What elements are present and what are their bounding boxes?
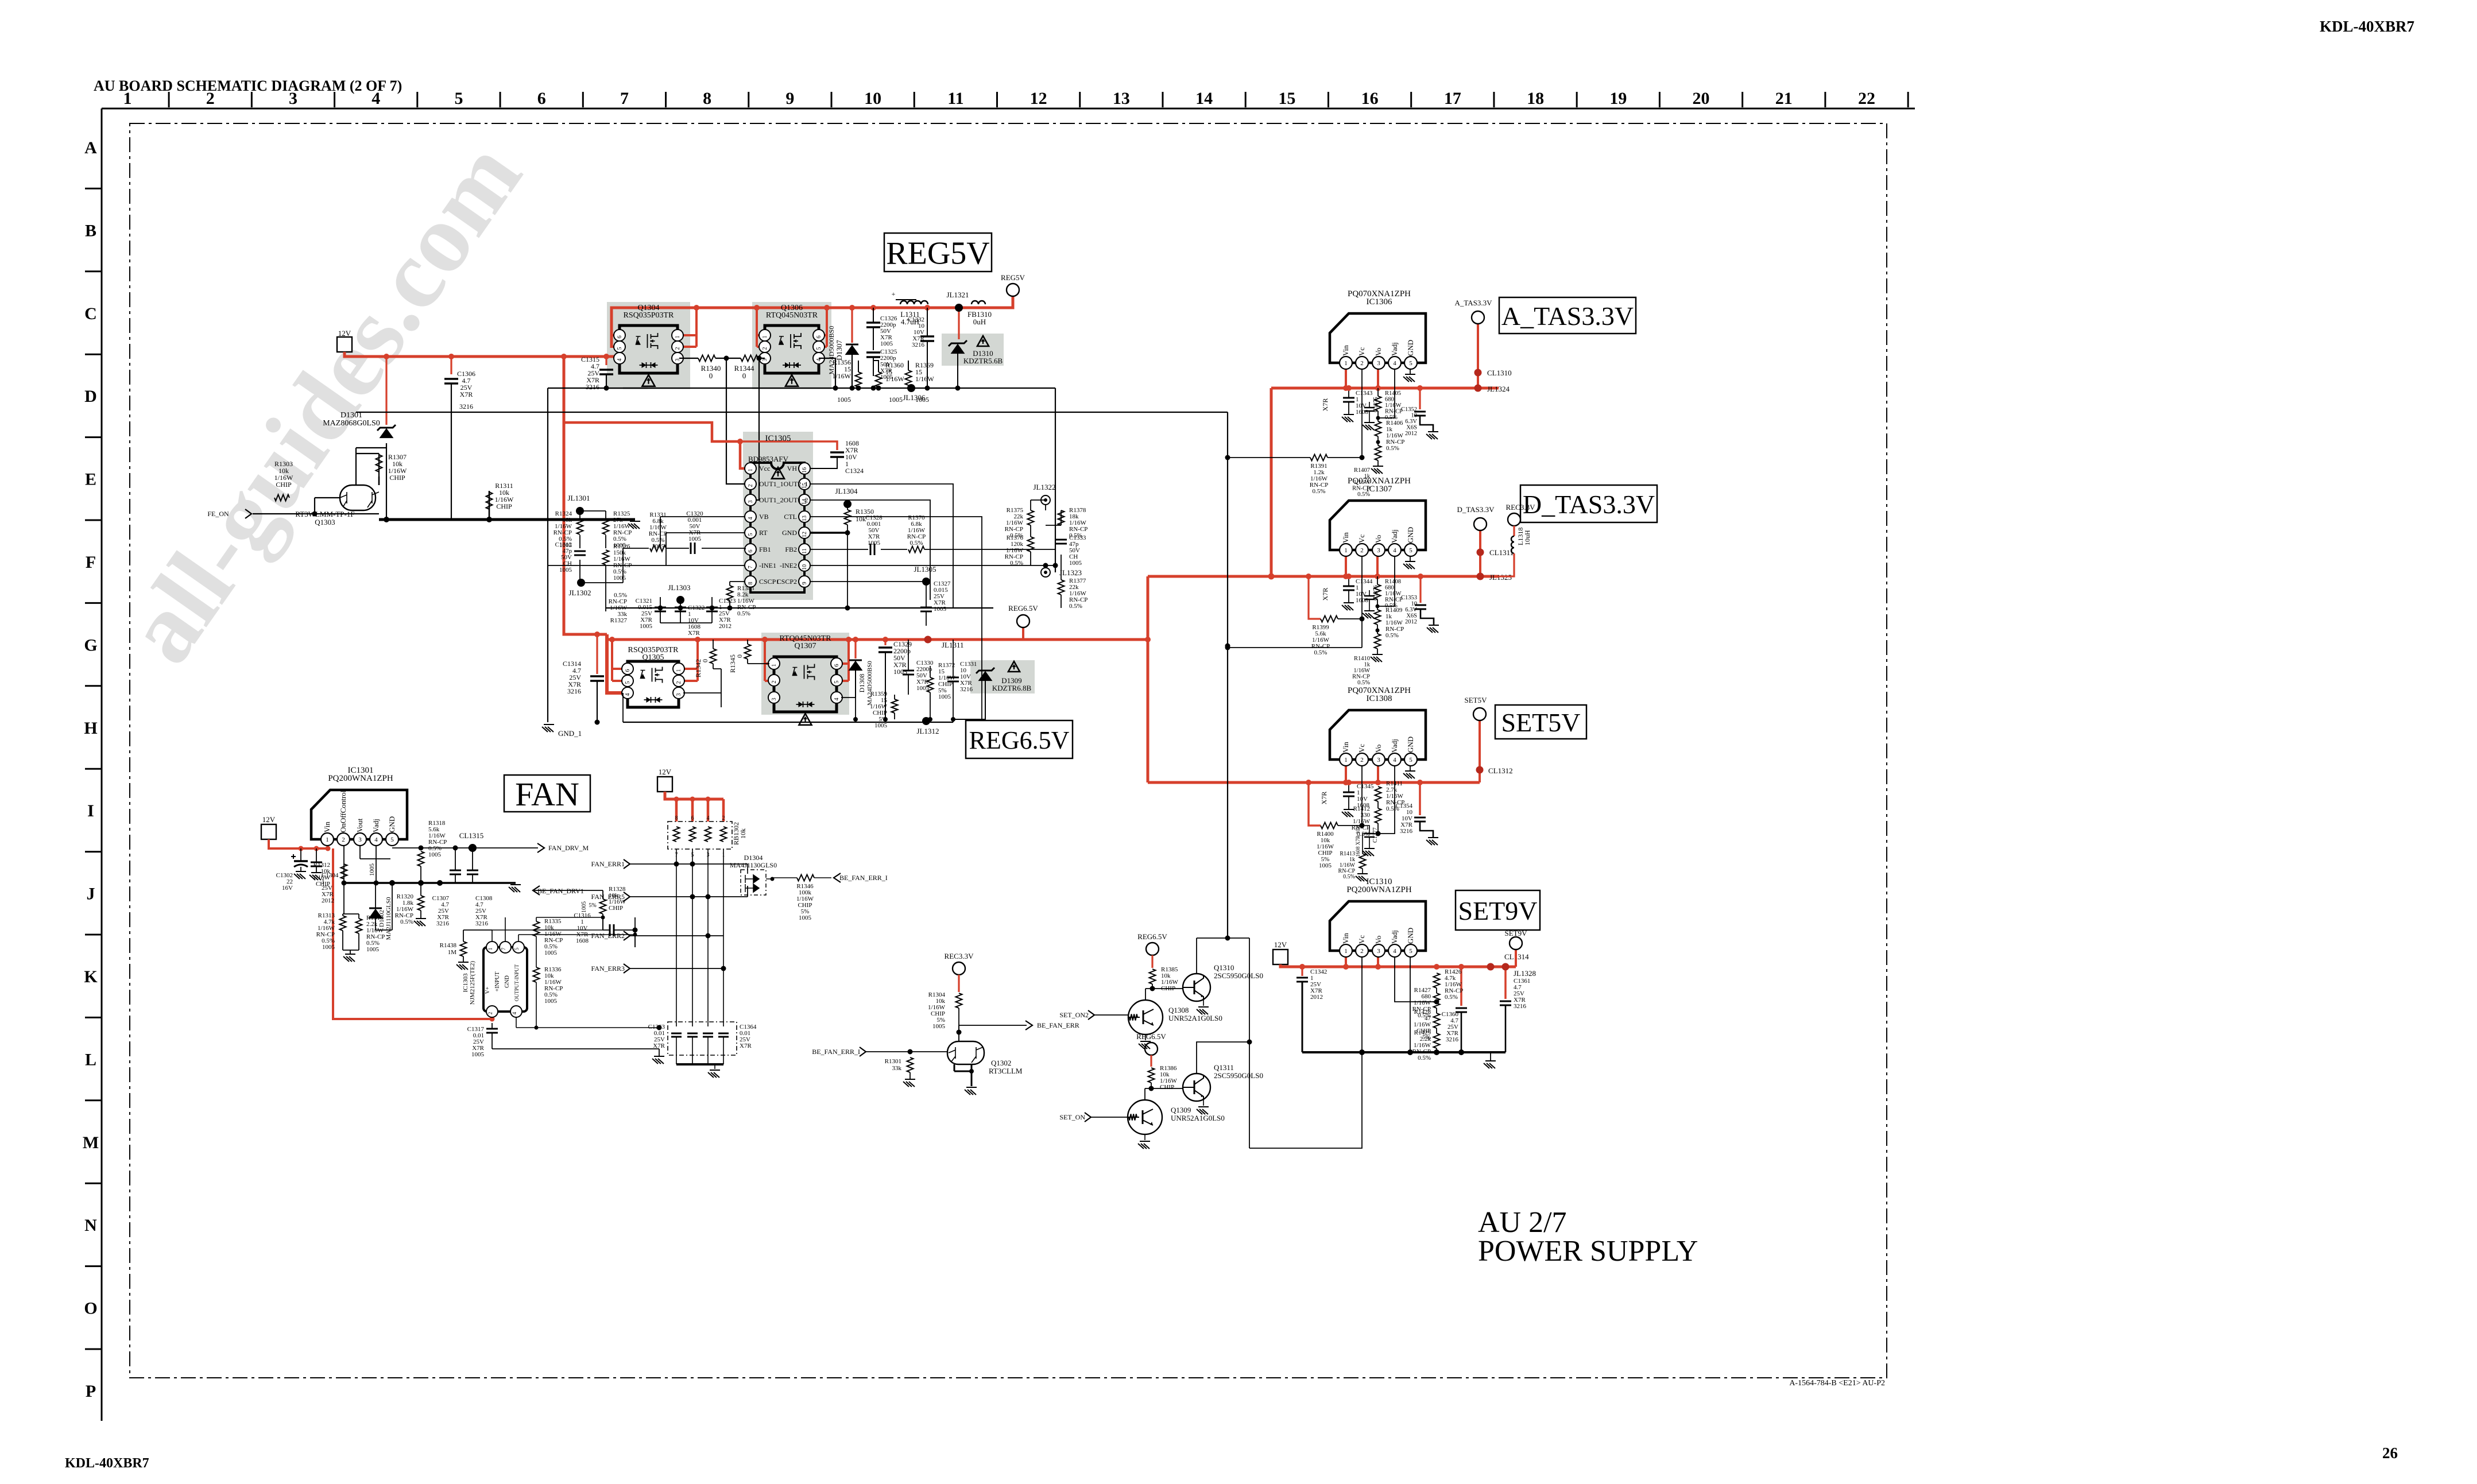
wire SET5V riser <box>1479 721 1481 782</box>
svg-text:PQ070XNA1ZPH: PQ070XNA1ZPH <box>1348 686 1411 695</box>
svg-text:PQ070XNA1ZPH: PQ070XNA1ZPH <box>1348 476 1411 486</box>
ground (Q1303) <box>628 521 640 529</box>
input SET_ON2 <box>1088 1010 1094 1020</box>
wire vertical x954 <box>547 388 548 722</box>
svg-text:1: 1 <box>771 664 777 667</box>
IC U1310 (PQ200WNA1ZPH) <box>1330 901 1426 951</box>
svg-text:5: 5 <box>834 681 840 684</box>
svg-text:1: 1 <box>676 669 682 672</box>
capacitor C1306 <box>444 379 458 383</box>
svg-text:2: 2 <box>748 485 754 487</box>
svg-text:OUTPUT-INPUT: OUTPUT-INPUT <box>514 964 520 1001</box>
jumper JL1312 <box>922 717 930 725</box>
grid rulers <box>102 108 1915 110</box>
svg-text:8: 8 <box>675 815 678 822</box>
ground fan mid <box>509 885 521 892</box>
svg-text:4: 4 <box>512 1012 517 1014</box>
svg-text:1/16W: 1/16W <box>832 372 851 380</box>
svg-text:AU BOARD SCHEMATIC DIAGRAM (2: AU BOARD SCHEMATIC DIAGRAM (2 OF 7) <box>94 78 402 94</box>
svg-text:1005: 1005 <box>889 396 903 404</box>
jumper JL1328 <box>1502 963 1510 971</box>
wire IC1301 pin2 drop <box>343 845 345 914</box>
svg-text:X7R: X7R <box>653 1043 665 1049</box>
block label D_TAS3.3V <box>1520 485 1657 522</box>
wire Q1311 collector up <box>1197 1042 1249 1074</box>
capacitor C1326 <box>866 323 880 327</box>
svg-text:0.5%: 0.5% <box>1313 488 1326 495</box>
svg-text:2: 2 <box>342 836 345 843</box>
wire OUT1 drop A <box>726 358 745 484</box>
svg-text:16: 16 <box>802 467 808 473</box>
wire thick gnd run <box>379 518 635 521</box>
svg-text:FAN: FAN <box>515 776 579 813</box>
wire Q1303 collector net <box>379 476 489 520</box>
svg-text:D: D <box>84 387 97 406</box>
resistor R1360 <box>876 372 882 387</box>
svg-text:X7R: X7R <box>740 1043 752 1049</box>
capacitor C1377 <box>1364 834 1375 837</box>
wire Q1304 left pin drops <box>611 335 623 347</box>
svg-text:3: 3 <box>1377 757 1380 764</box>
svg-text:3: 3 <box>676 693 682 696</box>
svg-text:D1307: D1307 <box>835 340 843 361</box>
svg-text:6: 6 <box>617 336 623 339</box>
svg-text:REG6.5V: REG6.5V <box>969 726 1070 754</box>
diode D1309 (zener, gray box) <box>976 668 994 673</box>
resistor R1385 <box>1150 969 1156 984</box>
svg-text:6: 6 <box>748 550 754 553</box>
capacitor C1329 <box>878 648 892 652</box>
svg-text:A: A <box>84 138 97 157</box>
gray box D1310 <box>942 334 1004 366</box>
svg-text:1: 1 <box>487 948 493 951</box>
resistor R1342 <box>710 649 717 664</box>
wire fan err gnd bus <box>676 1063 723 1065</box>
resistor R1346 <box>797 875 814 881</box>
wire D1301 feed <box>385 357 387 425</box>
svg-text:IC1307: IC1307 <box>1367 485 1393 494</box>
svg-text:Q1303: Q1303 <box>315 518 335 526</box>
svg-text:M: M <box>83 1133 99 1152</box>
wire REG6.5V gnd bus <box>623 722 953 723</box>
svg-text:5: 5 <box>748 533 754 536</box>
wire IC1305 pin rails <box>548 517 745 582</box>
wire SET_ON to Q1309 <box>1091 1117 1129 1118</box>
capacitor C1325 <box>866 352 880 357</box>
wire REC3.3V drop <box>1513 526 1515 536</box>
svg-text:REC3.3V: REC3.3V <box>945 952 974 960</box>
capacitor C1317 <box>486 1029 498 1033</box>
svg-text:10k: 10k <box>856 515 866 523</box>
svg-text:12: 12 <box>802 532 808 537</box>
svg-text:RT3CLLM: RT3CLLM <box>989 1067 1023 1075</box>
svg-text:Vadj: Vadj <box>1390 739 1399 753</box>
svg-text:1005: 1005 <box>428 851 442 858</box>
wire C1314 stub <box>596 634 598 674</box>
svg-text:4: 4 <box>748 517 754 520</box>
wire 12V bus <box>345 352 623 357</box>
wire C1342 stub <box>1301 967 1303 976</box>
svg-text:PQ200WNA1ZPH: PQ200WNA1ZPH <box>1346 885 1412 894</box>
svg-text:Vadj: Vadj <box>371 819 380 832</box>
svg-text:1/16W: 1/16W <box>885 375 904 383</box>
wire REG5V gnd bus <box>623 388 1055 389</box>
svg-text:K: K <box>84 967 98 986</box>
svg-text:Q1302: Q1302 <box>991 1059 1011 1067</box>
resistor R1320 <box>418 896 424 910</box>
svg-text:0.5%: 0.5% <box>1069 603 1082 610</box>
svg-text:R1408: R1408 <box>1385 579 1401 585</box>
terminal REG6.5V (Q1310) <box>1146 943 1159 955</box>
capacitor C1361 <box>1500 1001 1511 1005</box>
wire vertical feed 1999 <box>1147 576 1150 782</box>
resistor R1316 <box>356 919 362 933</box>
node trunk junction <box>594 631 600 637</box>
svg-text:IC1306: IC1306 <box>1367 297 1393 307</box>
svg-text:UNR52A1G0LS0: UNR52A1G0LS0 <box>1168 1014 1222 1022</box>
svg-text:D_TAS3.3V: D_TAS3.3V <box>1457 505 1495 514</box>
svg-text:1: 1 <box>762 336 768 339</box>
svg-text:C1353: C1353 <box>1401 595 1417 601</box>
resistor R1411 <box>1375 786 1381 801</box>
svg-text:RN-CP: RN-CP <box>1352 674 1370 680</box>
svg-text:FAN_ERR5: FAN_ERR5 <box>591 893 625 901</box>
svg-text:REG6.5V: REG6.5V <box>1137 932 1167 941</box>
svg-text:JL1301: JL1301 <box>568 494 590 502</box>
wire C1360 stub <box>1460 967 1462 1006</box>
diode D1304 (dual) <box>741 870 766 895</box>
svg-text:3: 3 <box>1377 360 1380 367</box>
svg-text:Vcc: Vcc <box>759 464 770 472</box>
svg-text:C1324: C1324 <box>845 467 864 475</box>
resistor R1406 <box>1375 421 1381 436</box>
capacitor C1315 <box>599 370 613 374</box>
capacitor C1302 (electrolytic) <box>294 860 308 862</box>
svg-text:REG5V: REG5V <box>886 236 989 272</box>
svg-text:1005: 1005 <box>471 1051 485 1058</box>
svg-text:R1345: R1345 <box>729 654 737 673</box>
svg-text:L: L <box>85 1050 96 1069</box>
svg-text:1005: 1005 <box>581 901 587 913</box>
svg-text:X6S: X6S <box>1406 425 1417 431</box>
wire IC1310 Vc long drop <box>1197 938 1362 1148</box>
power terminal 12V (RB1302) <box>657 777 672 792</box>
wire JL1322 net <box>1031 500 1061 565</box>
svg-text:2012: 2012 <box>1405 431 1417 437</box>
svg-text:X7R: X7R <box>688 630 700 637</box>
node fan feed junctions <box>299 846 304 851</box>
capacitor C1360 <box>1456 1008 1467 1012</box>
svg-text:PQ070XNA1ZPH: PQ070XNA1ZPH <box>1348 289 1411 299</box>
wire D1310 drop <box>958 308 959 339</box>
wire IC1308 Vin stub <box>1345 765 1347 782</box>
svg-text:JL1303: JL1303 <box>668 583 691 592</box>
svg-text:VB: VB <box>759 513 769 521</box>
node SET9V junctions <box>1299 964 1305 970</box>
svg-text:CHIP: CHIP <box>496 502 512 510</box>
svg-text:JL1306: JL1306 <box>903 393 926 402</box>
svg-text:OUT1_1OUT2_1: OUT1_1OUT2_1 <box>759 480 808 488</box>
svg-text:+: + <box>892 290 896 298</box>
svg-text:1005: 1005 <box>559 567 572 574</box>
resistor R1372 <box>927 677 934 692</box>
wire BE_FAN_ERR_I to Q1302 <box>866 1051 947 1052</box>
svg-text:1k: 1k <box>1364 662 1371 668</box>
capacitor C1330 <box>903 671 914 675</box>
svg-text:RN-CP: RN-CP <box>1385 409 1403 415</box>
capacitor C1345 <box>1343 792 1354 796</box>
svg-text:VH: VH <box>787 464 798 472</box>
svg-text:SET5V: SET5V <box>1465 696 1488 704</box>
terminal SET9V <box>1510 937 1522 950</box>
svg-text:R1327: R1327 <box>610 617 628 624</box>
wire REG6.5V bus <box>607 638 1148 641</box>
svg-text:1: 1 <box>1344 360 1348 367</box>
svg-text:Vo: Vo <box>1374 936 1383 944</box>
wire SET5V bus <box>1148 781 1480 784</box>
wire A_TAS trunk <box>1270 388 1273 576</box>
capacitor C1375 <box>1364 408 1375 411</box>
wire fan lower net <box>343 883 392 954</box>
wire red trunk 12V to REG6.5V <box>564 357 607 634</box>
wire IC1308 Vadj drop <box>1378 765 1395 834</box>
wire IC1308 Vo stub <box>1377 765 1379 782</box>
svg-text:1005: 1005 <box>544 950 558 956</box>
capacitor C1353 <box>1415 605 1426 609</box>
resistor R1413b <box>1360 854 1366 869</box>
wire Q1305 left loop <box>612 640 623 681</box>
resistor R1375 <box>1028 510 1034 525</box>
svg-text:NJM2125F(TE2): NJM2125F(TE2) <box>469 960 476 1005</box>
svg-text:POWER SUPPLY: POWER SUPPLY <box>1478 1235 1698 1268</box>
capacitor C1320 <box>691 543 695 554</box>
svg-text:1/16W: 1/16W <box>915 375 934 383</box>
svg-text:Vadj: Vadj <box>1390 930 1399 944</box>
resistor R1407 <box>1375 445 1381 460</box>
svg-text:X7R: X7R <box>1320 792 1328 805</box>
resistor R1335 <box>533 921 540 936</box>
transistor Q1308 (UNR52A1G0LS0) <box>1128 1000 1163 1034</box>
capacitor C1307 <box>450 870 461 874</box>
wire R1344 to Q1306 pin3 <box>758 358 765 359</box>
wire vertical x2138 <box>1227 412 1228 938</box>
svg-text:CHIP: CHIP <box>276 481 292 489</box>
resistor R1350 <box>845 510 851 525</box>
svg-text:2: 2 <box>1360 360 1364 367</box>
svg-text:D1304: D1304 <box>744 854 763 862</box>
svg-text:3: 3 <box>1377 948 1380 955</box>
wire IC1301 Vin feed <box>269 839 328 848</box>
capacitor C1376 <box>1364 596 1375 599</box>
svg-text:2012: 2012 <box>1405 619 1417 625</box>
svg-text:Vo: Vo <box>1374 745 1383 753</box>
svg-text:OUT1_2OUT1_2: OUT1_2OUT1_2 <box>759 496 808 504</box>
transistor Q1302 (RT3CLLM) <box>947 1041 984 1064</box>
node C1317 junction <box>490 1017 495 1022</box>
svg-text:5: 5 <box>816 347 822 350</box>
resistor R1307 <box>376 455 382 472</box>
svg-text:3: 3 <box>748 501 754 503</box>
svg-text:J: J <box>87 885 95 904</box>
resistor R1429 <box>1434 1033 1440 1048</box>
svg-text:1005: 1005 <box>688 536 702 543</box>
svg-text:5: 5 <box>514 947 520 950</box>
svg-text:1: 1 <box>1344 547 1348 554</box>
node A bus junctions <box>1343 385 1349 391</box>
power terminal 12V (SET9V) <box>1273 950 1288 964</box>
wire Q1302 bottom <box>954 1064 972 1086</box>
capacitor C1316 <box>610 924 614 936</box>
svg-text:0.5%: 0.5% <box>1343 874 1355 880</box>
gray box Q1304 <box>607 302 690 389</box>
svg-text:JL1305: JL1305 <box>914 565 936 574</box>
wire C1352 stub <box>1419 388 1421 409</box>
resistor R1344 <box>741 355 758 362</box>
svg-text:11: 11 <box>947 89 963 108</box>
svg-text:Q1307: Q1307 <box>794 642 816 650</box>
svg-text:1: 1 <box>326 836 329 843</box>
wire FAN_DRV_M line <box>392 847 538 848</box>
ground fan lower <box>343 954 355 962</box>
svg-text:R1342: R1342 <box>694 659 702 677</box>
svg-text:1005: 1005 <box>868 540 881 547</box>
IC U1308 (PQ070XNA1ZPH) <box>1330 710 1426 760</box>
svg-text:1005: 1005 <box>799 915 812 921</box>
resistor R1311 <box>486 492 493 509</box>
input FAN_ERR2 <box>624 931 630 940</box>
resistor R1325 <box>603 520 609 534</box>
capacitor C1342 <box>1296 978 1308 982</box>
svg-text:12V: 12V <box>1274 940 1287 949</box>
svg-text:RT: RT <box>759 529 768 537</box>
resistor R1370 <box>908 547 924 553</box>
node x2138 joints <box>1225 455 1230 460</box>
resistor R1438 <box>460 941 467 956</box>
svg-text:REG5V: REG5V <box>1001 273 1025 282</box>
svg-text:1/16W: 1/16W <box>1385 402 1402 409</box>
svg-text:3216: 3216 <box>459 402 473 410</box>
svg-text:RSQ035P03TR: RSQ035P03TR <box>624 311 675 320</box>
svg-text:5: 5 <box>454 89 463 108</box>
wire pin15 net <box>810 484 953 608</box>
wire FAN_ERR1 to D1304 <box>747 864 748 874</box>
svg-text:0.5%: 0.5% <box>1386 445 1399 452</box>
svg-text:P: P <box>86 1382 96 1401</box>
resistor R1386 <box>1148 1068 1155 1083</box>
diode D1308 <box>849 660 862 661</box>
svg-text:1005: 1005 <box>544 998 558 1005</box>
svg-text:A-1564-784-B <E21> AU-P2: A-1564-784-B <E21> AU-P2 <box>1789 1379 1885 1388</box>
svg-text:3216: 3216 <box>475 920 489 927</box>
svg-text:BE_FAN_ERR: BE_FAN_ERR <box>1037 1021 1079 1029</box>
node REG6.5V bus junctions <box>609 637 615 642</box>
gray box IC1305 <box>743 432 813 600</box>
svg-text:FAN_ERR3: FAN_ERR3 <box>591 964 625 972</box>
svg-text:12: 12 <box>1030 89 1047 108</box>
IC U1303 (NJM2125F) <box>483 947 527 1012</box>
svg-text:KDL-40XBR7: KDL-40XBR7 <box>2320 18 2414 35</box>
svg-text:2: 2 <box>676 681 682 684</box>
resistor R1369 <box>905 370 912 385</box>
capacitor C1304 <box>311 862 322 866</box>
svg-text:10k: 10k <box>739 828 747 839</box>
jumper CL1314 <box>1487 963 1495 971</box>
capacitor C1312 <box>574 551 586 555</box>
svg-text:R1438: R1438 <box>440 942 457 949</box>
svg-text:4.7uH: 4.7uH <box>901 317 919 326</box>
node D bus junctions <box>1343 574 1349 579</box>
node REG5V bus junctions <box>694 305 699 311</box>
wire Q1308 collector <box>1145 989 1152 1000</box>
svg-text:1005: 1005 <box>938 693 951 700</box>
resistor R1391 <box>1310 455 1327 461</box>
svg-text:5: 5 <box>390 836 394 843</box>
svg-text:10: 10 <box>1411 601 1418 607</box>
wire CSCP2 net <box>810 582 926 626</box>
svg-text:JL1321: JL1321 <box>947 290 969 299</box>
svg-text:21: 21 <box>1775 89 1793 108</box>
resistor R1356 <box>856 372 862 387</box>
svg-text:Vadj: Vadj <box>1390 529 1399 543</box>
svg-text:Vc: Vc <box>1357 534 1366 543</box>
svg-text:JL1323: JL1323 <box>1059 568 1082 577</box>
wire IC1301 pin3 out <box>360 845 390 859</box>
svg-text:6: 6 <box>625 669 631 672</box>
svg-text:Q1308: Q1308 <box>1168 1006 1189 1014</box>
svg-text:IC1303: IC1303 <box>462 973 469 993</box>
svg-text:26: 26 <box>2382 1444 2398 1462</box>
resistor R1345 <box>745 644 751 659</box>
svg-text:4: 4 <box>617 359 623 362</box>
svg-text:Vin: Vin <box>1341 933 1350 944</box>
ground IC1306 pin5 <box>1410 369 1411 374</box>
svg-text:Vadj: Vadj <box>1390 342 1399 356</box>
svg-text:0.5%: 0.5% <box>1314 649 1327 656</box>
svg-text:CTL: CTL <box>784 513 797 521</box>
resistor R1331 <box>650 545 666 552</box>
svg-text:FAN_DRV_M: FAN_DRV_M <box>548 844 589 852</box>
jumper JL1306 <box>907 384 915 392</box>
svg-text:FAN_ERR2: FAN_ERR2 <box>591 932 625 940</box>
svg-text:0.5%: 0.5% <box>1445 994 1458 1001</box>
svg-text:GND_1: GND_1 <box>558 729 582 738</box>
resistor R1343 <box>727 586 733 600</box>
wire R1391 link <box>1228 457 1362 458</box>
svg-text:4: 4 <box>1393 360 1396 367</box>
svg-text:D_TAS3.3V: D_TAS3.3V <box>1523 490 1655 519</box>
resistor R1312 <box>341 864 347 879</box>
svg-text:1: 1 <box>1344 948 1348 955</box>
wire L1318 to bus <box>1499 553 1514 576</box>
terminal REG6.5V (Q1311) <box>1145 1043 1158 1055</box>
ground Q1310 <box>1203 1000 1204 1006</box>
wire IC1306 Vo stub <box>1377 369 1379 388</box>
jumper JL1325 <box>1477 573 1484 580</box>
svg-text:0.5%: 0.5% <box>1418 1055 1431 1061</box>
capacitor C1344 <box>1343 586 1354 590</box>
capacitor C1323 <box>706 607 718 611</box>
input FAN_ERR3 <box>624 964 630 973</box>
svg-text:1/16W: 1/16W <box>1353 668 1370 674</box>
svg-text:3216: 3216 <box>1514 1003 1527 1010</box>
svg-text:0.5%: 0.5% <box>910 540 923 547</box>
svg-text:KDZTR5.6B: KDZTR5.6B <box>963 357 1003 365</box>
ferrite FB1310 0uH <box>972 301 985 304</box>
svg-text:JL1304: JL1304 <box>835 487 858 495</box>
ground IC1303 <box>652 1056 664 1064</box>
wire FB2 net <box>810 549 1055 550</box>
svg-text:3: 3 <box>675 359 681 362</box>
